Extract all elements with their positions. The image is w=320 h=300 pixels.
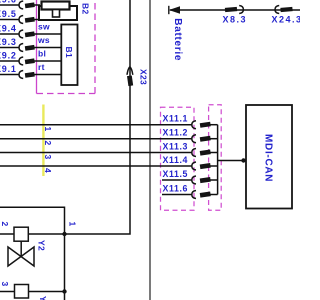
svg-text:3: 3 bbox=[43, 155, 53, 160]
svg-text:X11.5: X11.5 bbox=[163, 169, 189, 179]
svg-text:2: 2 bbox=[43, 141, 53, 146]
svg-text:X11.3: X11.3 bbox=[163, 142, 189, 152]
svg-text:X9.3: X9.3 bbox=[0, 37, 17, 47]
svg-text:X24.3: X24.3 bbox=[272, 15, 301, 25]
svg-text:Y1: Y1 bbox=[38, 296, 48, 300]
svg-text:X9.6: X9.6 bbox=[0, 0, 17, 5]
svg-text:X11.1: X11.1 bbox=[163, 114, 189, 124]
svg-text:X11.6: X11.6 bbox=[163, 184, 189, 194]
svg-text:X9.2: X9.2 bbox=[0, 51, 17, 61]
svg-text:X9.1: X9.1 bbox=[0, 64, 17, 74]
svg-text:X11.2: X11.2 bbox=[163, 128, 189, 138]
svg-text:X11.4: X11.4 bbox=[163, 155, 189, 165]
svg-text:X9.4: X9.4 bbox=[0, 24, 17, 34]
svg-text:Y2: Y2 bbox=[37, 240, 47, 251]
svg-text:3: 3 bbox=[0, 282, 10, 287]
svg-text:B2: B2 bbox=[80, 3, 90, 14]
svg-text:1: 1 bbox=[43, 127, 53, 132]
svg-text:1: 1 bbox=[68, 222, 78, 227]
svg-text:sw: sw bbox=[38, 22, 50, 32]
svg-text:X23: X23 bbox=[138, 69, 148, 85]
svg-text:B1: B1 bbox=[64, 47, 74, 58]
svg-text:bl: bl bbox=[38, 49, 46, 59]
svg-text:2: 2 bbox=[0, 222, 10, 227]
svg-text:rt: rt bbox=[38, 62, 45, 72]
svg-text:ws: ws bbox=[37, 35, 50, 45]
svg-text:X8.3: X8.3 bbox=[223, 15, 248, 25]
svg-text:X9.5: X9.5 bbox=[0, 9, 17, 19]
svg-text:Batterie: Batterie bbox=[172, 18, 183, 61]
svg-text:MDI-CAN: MDI-CAN bbox=[263, 134, 274, 182]
svg-text:4: 4 bbox=[43, 168, 53, 173]
